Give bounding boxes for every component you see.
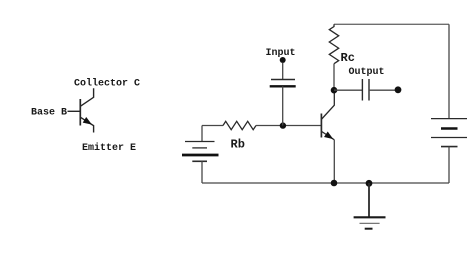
wire battery B2 to bottom: [448, 147, 450, 183]
ground stem: [368, 183, 370, 217]
wire C1 to base node: [282, 86, 284, 125]
bottom wire: [202, 182, 449, 184]
wire Rb to base: [256, 125, 321, 127]
wire right vertical: [448, 24, 450, 118]
node emitter-bottom junction: [331, 180, 338, 187]
collector lead: [81, 88, 94, 106]
node input terminal: [280, 57, 286, 63]
battery B1 (left): [182, 142, 219, 162]
transistor Q1 collector lead: [322, 90, 335, 119]
svg-text:Emitter E: Emitter E: [82, 142, 136, 154]
wire B1 to Rb: [202, 125, 223, 127]
base wire: [68, 110, 80, 112]
wire battery B1 top: [201, 126, 203, 142]
capacitor C1 (input): [270, 80, 296, 87]
svg-text:Collector C: Collector C: [74, 78, 140, 90]
node output terminal: [395, 86, 402, 93]
resistor Rb: [223, 121, 256, 129]
wire input terminal to C1: [282, 63, 284, 80]
svg-text:Base B: Base B: [31, 108, 67, 119]
svg-text:Rb: Rb: [231, 138, 245, 152]
emitter lead: [81, 117, 94, 132]
transistor Q1 emitter lead: [322, 132, 335, 140]
ground bar 1: [354, 216, 386, 218]
svg-text:Output: Output: [349, 67, 385, 78]
battery B2 (right): [431, 119, 467, 147]
transistor Q1 emitter arrow: [324, 132, 333, 140]
svg-text:Input: Input: [266, 48, 296, 59]
node collector junction: [331, 87, 338, 94]
svg-text:Rc: Rc: [341, 51, 355, 65]
ground bar 3: [365, 228, 373, 230]
transistor Q1 base bar: [320, 114, 322, 138]
node base junction: [280, 122, 286, 128]
node ground junction: [366, 180, 373, 187]
amplifier circuit (right): [182, 24, 467, 228]
ground bar 2: [360, 222, 380, 224]
emitter arrow: [83, 117, 92, 125]
resistor Rc: [329, 24, 338, 63]
wire Rc to collector node: [333, 64, 335, 90]
transistor legend symbol (left): [31, 78, 140, 155]
wire battery B1 to bottom: [201, 161, 203, 183]
capacitor C2 (output): [362, 79, 369, 101]
top wire: [334, 23, 449, 25]
wire emitter to bottom: [333, 140, 335, 183]
wire C2 to output terminal: [369, 89, 398, 91]
wire collector to C2: [334, 89, 362, 91]
base bar: [79, 99, 81, 126]
